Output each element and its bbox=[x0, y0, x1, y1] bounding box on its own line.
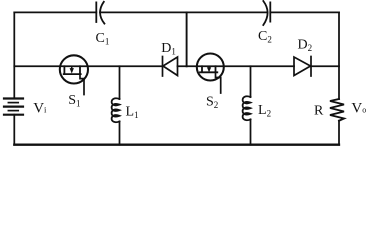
svg-text:L2: L2 bbox=[258, 103, 271, 119]
svg-text:D2: D2 bbox=[298, 38, 313, 54]
svg-text:L1: L1 bbox=[126, 105, 139, 121]
svg-text:D1: D1 bbox=[161, 41, 176, 57]
svg-text:S1: S1 bbox=[68, 93, 80, 109]
svg-text:C1: C1 bbox=[96, 31, 110, 47]
svg-text:Vi: Vi bbox=[33, 101, 47, 117]
svg-text:R: R bbox=[314, 103, 324, 118]
svg-text:Vo: Vo bbox=[351, 100, 366, 116]
svg-text:C2: C2 bbox=[258, 29, 272, 45]
svg-text:S2: S2 bbox=[206, 95, 218, 111]
